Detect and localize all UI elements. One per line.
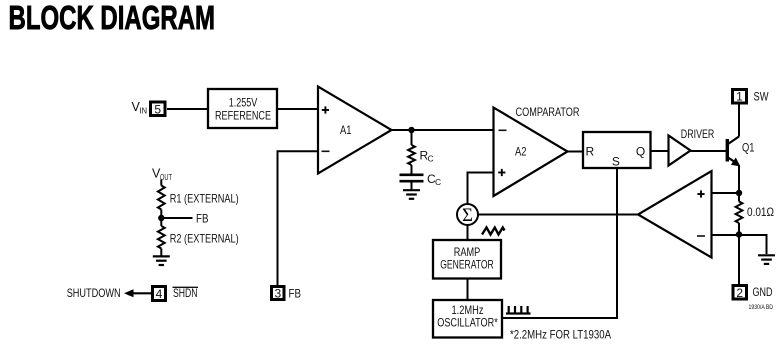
resistor RC [408,145,434,165]
resistor 0.01 ohm [736,193,774,235]
svg-text:Q1: Q1 [742,141,755,155]
pin 1 (SW) [733,90,770,104]
resistor R1 (external) [158,186,239,210]
svg-text:R1 (EXTERNAL): R1 (EXTERNAL) [170,191,239,205]
resistor R2 (external) [158,226,239,249]
pin 5 (VIN) [151,102,166,116]
wire summer to current sense amp [478,214,638,216]
svg-text:REFERENCE: REFERENCE [215,109,271,123]
summer U-sigma [457,204,478,226]
svg-text:5: 5 [154,102,161,116]
ground (R2) [153,256,170,265]
svg-text:R: R [585,145,594,159]
svg-text:SHDN: SHDN [173,286,198,300]
svg-text:Σ: Σ [462,206,473,226]
svg-text:A1: A1 [340,123,352,137]
svg-text:GND: GND [753,285,773,299]
svg-text:C: C [428,154,434,164]
wire Cc to ground [411,181,413,190]
svg-text:S: S [612,155,620,169]
wire A2 + input to summer [468,173,494,205]
transistor Q1 [727,137,754,167]
wire ramp generator to oscillator [467,279,469,301]
svg-text:A2: A2 [515,145,527,159]
pin 2 (GND) [733,285,773,300]
wire sense amp + input [712,192,740,194]
net label VIN [132,100,148,116]
pin 3 (FB) [272,286,302,300]
flip-flop R/S latch [583,132,651,169]
svg-text:DRIVER: DRIVER [681,127,715,141]
svg-text:IN: IN [140,106,148,116]
svg-text:SHUTDOWN: SHUTDOWN [67,286,121,300]
net label SHDN with overline [173,286,199,300]
wire Rc to Cc [411,165,413,174]
wire Q1 collector to SW pin [738,105,740,137]
svg-text:1.255V: 1.255V [229,96,258,110]
block 1.2MHz oscillator [433,300,502,338]
buffer driver [669,136,691,166]
net label VOUT [152,167,172,183]
svg-text:2: 2 [736,286,743,300]
node emitter/sense junction [736,190,742,196]
node sense resistor bottom junction [736,231,742,237]
svg-text:FB: FB [196,211,209,225]
wire junction to Rc [411,130,413,145]
wire driver to Q1 base [691,150,727,152]
current sense amplifier [638,171,712,258]
node A1 output junction [408,127,414,133]
clock waveform symbol [506,306,531,314]
svg-text:C: C [435,177,441,187]
ground (Cc) [403,190,420,199]
svg-text:1: 1 [736,90,743,104]
svg-text:1930/A BD: 1930/A BD [749,304,774,311]
svg-text:OSCILLATOR*: OSCILLATOR* [437,316,498,330]
svg-text:Q: Q [636,145,645,159]
wire flip-flop Q to driver [651,150,669,152]
wire junction to GND pin [738,235,740,286]
wire A1 - input to FB pin 3 [278,151,319,286]
comparator A2 [494,108,568,197]
wire R2 to ground [160,249,162,257]
wire Q1 emitter to sense node [738,165,740,196]
svg-text:0.01Ω: 0.01Ω [747,205,774,219]
op-amp A1 [318,87,392,174]
wire A2 output to flip-flop R [568,151,584,153]
wire R1 to R2 [160,210,162,227]
svg-text:COMPARATOR: COMPARATOR [516,105,580,119]
pin 4 (SHDN) [153,287,166,301]
svg-text:3: 3 [274,286,281,300]
wire Vout to R1 [160,180,162,186]
wire VIN pin to reference [167,108,208,110]
wire reference to A1 + input [277,108,318,110]
svg-text:*2.2MHz FOR LT1930A: *2.2MHz FOR LT1930A [510,328,611,342]
ground (sense) [758,255,775,264]
svg-text:FB: FB [289,286,302,300]
svg-text:SW: SW [754,90,770,104]
svg-text:GENERATOR: GENERATOR [440,258,494,272]
node FB divider tap [158,215,164,221]
arrow shutdown [124,289,151,297]
wire A1 output to comparator - input [392,129,494,131]
block 1.255V reference [208,89,277,128]
ramp waveform symbol [482,228,505,235]
wire FB tap [161,217,192,219]
wire sense amp - input and ground stub [712,235,767,254]
capacitor CC [400,172,442,187]
wire oscillator to flip-flop S input [502,169,617,318]
block ramp generator [433,240,501,279]
wire summer to ramp generator [467,225,469,240]
svg-text:R2 (EXTERNAL): R2 (EXTERNAL) [170,232,239,246]
svg-text:4: 4 [156,287,163,301]
svg-text:BLOCK DIAGRAM: BLOCK DIAGRAM [9,0,216,36]
